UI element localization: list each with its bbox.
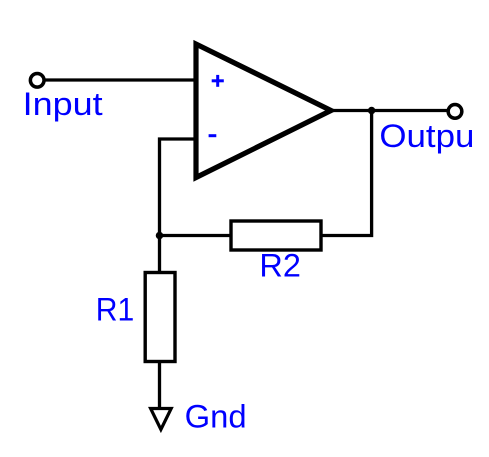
svg-text:Input: Input	[23, 86, 103, 122]
wire: op-amp output to output terminal	[331, 109, 448, 112]
wire: node A to R2 left	[160, 234, 233, 237]
op-amp plus input marker	[212, 75, 224, 87]
resistor R1 body	[145, 273, 175, 362]
wire: op-amp inverting input left then down to node A	[160, 139, 197, 236]
wire: R1 bottom to ground	[158, 361, 161, 409]
wire: input terminal to op-amp non-inverting input	[42, 78, 196, 81]
svg-text:Gnd: Gnd	[185, 399, 247, 435]
resistor R2 body	[231, 221, 321, 250]
node A junction dot	[156, 232, 164, 240]
op-amp U1 triangle	[196, 44, 331, 178]
svg-text:R2: R2	[259, 247, 301, 283]
output node junction dot	[368, 107, 376, 115]
svg-text:R1: R1	[96, 292, 135, 328]
wire: node A down to R1 top	[158, 236, 161, 274]
op-amp minus input marker	[209, 134, 217, 137]
ground symbol arrow	[151, 409, 172, 430]
output terminal circle	[448, 105, 462, 119]
wire: R2 right up to output node	[320, 111, 372, 236]
svg-text:Outpu: Outpu	[379, 118, 474, 154]
input terminal circle	[30, 73, 44, 87]
